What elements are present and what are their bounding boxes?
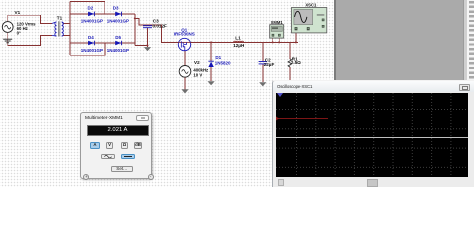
svg-text:1N4001GP: 1N4001GP <box>81 48 103 53</box>
svg-text:0°: 0° <box>17 31 21 36</box>
svg-text:1N5820: 1N5820 <box>215 60 231 65</box>
svg-text:22µF: 22µF <box>264 62 275 67</box>
svg-text:0.012F: 0.012F <box>153 24 167 29</box>
svg-text:V2: V2 <box>194 60 200 65</box>
svg-text:IRF530NS: IRF530NS <box>174 31 195 36</box>
svg-text:2.5Ω: 2.5Ω <box>291 60 301 65</box>
svg-text:C3: C3 <box>153 18 159 23</box>
svg-text:1N4001GP: 1N4001GP <box>107 19 129 24</box>
svg-text:12µH: 12µH <box>233 43 245 48</box>
svg-text:D3: D3 <box>113 6 119 11</box>
svg-text:XMM1: XMM1 <box>271 20 284 25</box>
svg-text:XSC1: XSC1 <box>305 2 317 7</box>
svg-text:D2: D2 <box>88 6 94 11</box>
svg-text:1N4001GP: 1N4001GP <box>81 19 103 24</box>
svg-text:T1: T1 <box>57 16 63 21</box>
svg-text:1N4001GP: 1N4001GP <box>107 48 129 53</box>
svg-text:L1: L1 <box>235 35 241 40</box>
svg-text:D5: D5 <box>115 35 121 40</box>
svg-text:D4: D4 <box>88 35 94 40</box>
svg-text:10 V: 10 V <box>193 72 202 77</box>
svg-text:V1: V1 <box>15 10 21 15</box>
